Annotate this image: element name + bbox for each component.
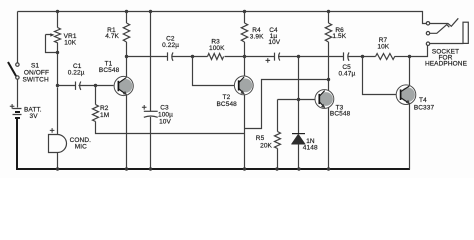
diode D1 1N4148	[292, 134, 305, 145]
node: T3 emitter at ground rail	[327, 167, 330, 170]
transistor T4	[396, 85, 416, 105]
wire: C4 to C5 (crosses T3 collector column)	[279, 56, 344, 58]
svg-text:R2: R2	[100, 105, 109, 112]
label R7 10K	[377, 37, 389, 51]
svg-text:BC548: BC548	[99, 67, 120, 74]
wire: collector node down to T4	[409, 57, 411, 86]
wire: top rail to R1	[126, 12, 128, 24]
node: R5 at ground rail	[275, 167, 278, 170]
wire: microphone to ground rail	[57, 153, 59, 170]
wire: T2 emitter to ground rail	[244, 95, 246, 170]
wire: D1 to ground rail	[298, 144, 300, 170]
wire: D1 column from C4 node to T3 base line	[298, 57, 300, 100]
label T3 BC548	[330, 104, 351, 117]
wire: left rail from top rail to switch	[17, 12, 19, 63]
transistor T1	[114, 76, 133, 95]
wire: R4 to collector node	[244, 42, 246, 57]
svg-text:4148: 4148	[303, 144, 318, 151]
node: C1 / R2 / T1 base junction	[94, 84, 97, 87]
node: mic at ground rail	[56, 167, 59, 170]
wire: top rail to R6	[328, 12, 330, 24]
node: top rail junction at R1	[125, 10, 128, 13]
label C5 0.47u	[338, 64, 355, 77]
wire: bottom ground rail (bold)	[16, 168, 410, 170]
label SOCKET FOR HEADPHONE	[425, 48, 468, 67]
resistor R4	[241, 23, 247, 42]
battery BATT. 3V	[10, 104, 22, 118]
headphone socket J1	[426, 18, 468, 45]
wire: R7 to T4 collector node	[395, 56, 410, 58]
wire: R3 to T2 collector node	[225, 56, 245, 58]
wire: top rail to VR1	[57, 12, 59, 28]
wire: R5 column	[277, 100, 279, 132]
wire: node to C1 left plate	[58, 85, 76, 87]
condenser microphone	[49, 128, 67, 152]
wire: C3 to ground rail	[150, 117, 152, 170]
node: C4 / D1 junction	[297, 55, 300, 58]
label COND. MIC	[70, 137, 92, 150]
wire: R2 bottom corner to emitter column (line B)	[96, 122, 245, 134]
label 1N 4148	[303, 138, 318, 151]
node: D1 at ground rail	[297, 167, 300, 170]
wire: T4 base branch	[363, 57, 397, 95]
label R4 3.9K	[250, 27, 264, 41]
svg-text:BC548: BC548	[330, 111, 351, 118]
resistor R2	[93, 105, 99, 122]
label VR1 10K	[64, 33, 77, 46]
svg-text:BC337: BC337	[414, 104, 435, 111]
svg-text:S1: S1	[31, 62, 39, 69]
node: R7 / T4 collector / socket junction	[408, 55, 411, 58]
label S1 ON/OFF SWITCH	[23, 62, 50, 83]
wire: R6 down to T3 collector (crosses signal line)	[328, 42, 330, 91]
wire: collector node down to T2	[244, 57, 246, 77]
wire: top V+ rail	[18, 12, 427, 24]
node: C2 / R3 / T2 base junction	[191, 55, 194, 58]
resistor R3	[208, 54, 224, 60]
node: top rail junction at R6	[327, 10, 330, 13]
wire: T1 emitter to ground rail	[126, 96, 128, 170]
svg-text:R5: R5	[256, 135, 265, 142]
wire: mic node down to microphone	[57, 88, 59, 135]
svg-text:4.7K: 4.7K	[105, 33, 119, 40]
svg-text:ON/OFF: ON/OFF	[24, 69, 49, 76]
label R5 20K	[256, 135, 273, 150]
label R3 100K	[209, 38, 225, 52]
capacitor C2	[168, 52, 174, 60]
svg-text:10V: 10V	[159, 119, 171, 126]
resistor R7	[376, 54, 395, 60]
capacitor C4	[266, 53, 280, 63]
capacitor C1	[76, 82, 81, 90]
svg-text:0.22µ: 0.22µ	[68, 70, 85, 77]
wire: T3 base line	[278, 99, 316, 101]
svg-text:SWITCH: SWITCH	[23, 77, 49, 84]
wire: T4 emitter to ground rail end	[409, 104, 411, 170]
node: top rail junction at C3	[149, 10, 152, 13]
svg-text:0.22µ: 0.22µ	[162, 42, 179, 49]
svg-text:10K: 10K	[377, 44, 389, 51]
label R6 1.5K	[332, 27, 346, 40]
wire: collector node to socket sleeve terminal	[410, 46, 428, 57]
wire: C5 to R7	[349, 56, 376, 58]
label BATT. 3V	[24, 107, 42, 120]
switch S1	[8, 62, 19, 79]
wire: top rail to R4	[244, 12, 246, 24]
resistor R5	[275, 132, 281, 149]
wire: T2 emitter link to T3 collector (line A)	[245, 80, 328, 129]
svg-text:HEADPHONE: HEADPHONE	[425, 61, 468, 68]
node: top rail junction at VR1	[56, 10, 59, 13]
wire: collector node down to T1	[126, 57, 128, 77]
node: T2 collector / R3 / C4 junction	[243, 55, 246, 58]
svg-text:10V: 10V	[268, 39, 280, 46]
svg-text:100µ: 100µ	[158, 112, 173, 119]
wire: collector node to C4	[245, 56, 275, 58]
wire: R1 to collector node	[126, 42, 128, 57]
capacitor C5	[344, 52, 350, 60]
node: C3 at ground rail	[149, 167, 152, 170]
wire: C2 to T2 base node	[172, 56, 208, 58]
svg-text:100K: 100K	[209, 45, 225, 52]
label R2 1M	[100, 105, 109, 119]
wire: C1 to R2/base node	[79, 85, 114, 87]
node: mic / C1 junction	[56, 84, 59, 87]
node: T1 collector / C2 junction	[125, 55, 128, 58]
transistor T3	[315, 90, 334, 109]
node: T3 collector / line A junction	[327, 78, 330, 81]
node: VR1 wiper tie junction	[56, 51, 59, 54]
label C4 1u 10V	[268, 27, 280, 46]
label C3 100u 10V	[158, 104, 173, 125]
wire: T1 collector node to C2	[127, 56, 168, 58]
svg-text:3.9K: 3.9K	[250, 34, 264, 41]
capacitor C3	[142, 105, 158, 117]
svg-text:0.47µ: 0.47µ	[338, 70, 355, 77]
node: T2 emitter at ground rail	[243, 167, 246, 170]
svg-text:1M: 1M	[100, 112, 109, 119]
wire: top rail down to C3	[150, 12, 152, 112]
svg-text:10K: 10K	[64, 40, 76, 47]
label T1 BC548	[99, 60, 120, 74]
resistor R1	[123, 23, 129, 42]
node: T1 emitter at ground rail	[125, 167, 128, 170]
node: top rail junction at R4	[243, 10, 246, 13]
label T2 BC548	[217, 94, 238, 108]
wire: R5 to ground rail	[277, 149, 279, 170]
transistor T2	[234, 76, 253, 95]
svg-text:MIC: MIC	[75, 143, 87, 150]
wire: base node down and right to T2 base	[193, 57, 235, 86]
label C2 0.22u	[162, 36, 179, 49]
wire: D1 lead from base node	[298, 100, 300, 134]
node: C5 / R7 / T4 base junction	[361, 55, 364, 58]
wire: T3 emitter to ground rail	[328, 108, 330, 170]
potentiometer VR1	[46, 28, 61, 53]
svg-text:C3: C3	[160, 104, 169, 111]
resistor R6	[325, 23, 331, 42]
svg-text:20K: 20K	[260, 143, 272, 150]
svg-text:1.5K: 1.5K	[332, 33, 346, 40]
svg-text:BC548: BC548	[217, 101, 238, 108]
node: T3 base / D1 / R5 junction	[297, 98, 300, 101]
svg-text:T4: T4	[419, 97, 427, 104]
wire: switch to battery	[17, 80, 19, 108]
wire: node down to R2	[95, 86, 97, 105]
wire: battery to ground rail (bold)	[16, 119, 18, 169]
svg-text:3V: 3V	[30, 113, 39, 120]
wire: VR1 bottom to C1 node	[57, 43, 59, 86]
label R1 4.7K	[105, 27, 119, 40]
label T4 BC337	[414, 97, 435, 111]
label C1 0.22u	[68, 63, 85, 77]
